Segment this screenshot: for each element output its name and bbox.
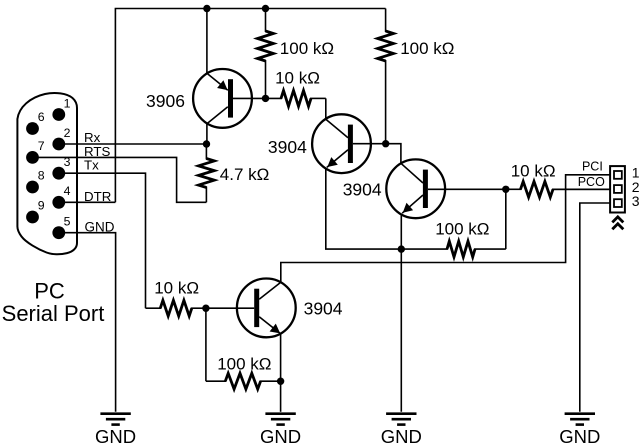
svg-text:PCI: PCI [582, 159, 603, 173]
wire PCO to header pin 2 (crosses PCI wire) [553, 188, 610, 190]
connector J1 3-pin header [610, 166, 625, 212]
resistor R 100k bottom [206, 308, 281, 389]
label PCO [578, 175, 605, 189]
svg-text:8: 8 [38, 169, 45, 183]
transistor Q3 2N3904 [343, 159, 506, 218]
node rail-100k junction [262, 5, 269, 12]
ground G4 (header) [559, 414, 600, 446]
wire Tx from pin 3 [59, 158, 146, 309]
resistor R 100k left [258, 9, 334, 99]
resistor R 10k top [266, 68, 326, 106]
svg-text:GND: GND [559, 426, 600, 446]
wire Q3 base [386, 144, 401, 164]
resistor R 100k right [378, 9, 455, 144]
DB9 pin 8 [26, 169, 45, 194]
wire header pin 3 to ground [580, 203, 610, 412]
ground G2 [260, 414, 301, 446]
svg-text:GND: GND [85, 219, 115, 234]
svg-text:10 kΩ: 10 kΩ [154, 278, 199, 297]
svg-text:GND: GND [381, 426, 422, 446]
node Q2-collector / Q3-base junction [382, 140, 389, 147]
svg-text:Tx: Tx [84, 158, 99, 173]
svg-text:3904: 3904 [343, 180, 382, 200]
wire 3906 emitter stub [206, 9, 208, 74]
resistor R 10k bottom (Tx) [146, 278, 206, 316]
transistor Q2 2N3904 [268, 114, 386, 173]
resistor 4.7 k&#937; [199, 144, 270, 202]
svg-text:3: 3 [632, 193, 640, 209]
transistor Q4 2N3904 [206, 279, 343, 338]
DB9 pin 6 [26, 110, 45, 135]
svg-text:GND: GND [260, 426, 301, 446]
svg-text:9: 9 [38, 199, 45, 213]
DB9 serial-port connector shell [17, 93, 77, 254]
label PCI [582, 159, 603, 173]
svg-text:100 kΩ: 100 kΩ [217, 355, 271, 374]
svg-text:4.7 kΩ: 4.7 kΩ [220, 165, 270, 184]
wire Q2 emitter [326, 168, 402, 249]
svg-text:100 kΩ: 100 kΩ [280, 39, 334, 58]
resistor R 100k feedback [401, 189, 506, 257]
DB9 pin 1 [52, 96, 70, 121]
svg-text:2: 2 [64, 126, 71, 140]
wire DTR from pin 4 [59, 189, 116, 204]
header pin numbers [632, 165, 640, 210]
node Q4 emitter junction [277, 378, 284, 385]
node Q3 collector junction [502, 186, 509, 193]
node rail-emitter junction [203, 5, 210, 12]
svg-text:3906: 3906 [146, 91, 185, 111]
DB9 pin 9 [26, 199, 45, 224]
wire GND from pin 5 [59, 219, 116, 411]
svg-text:10 kΩ: 10 kΩ [275, 68, 320, 87]
ground G3 [381, 414, 422, 446]
svg-text:Rx: Rx [84, 130, 101, 145]
node emitter junction [398, 245, 405, 252]
svg-text:4: 4 [64, 184, 71, 198]
PC Serial Port label [2, 279, 105, 326]
svg-text:7: 7 [38, 139, 45, 153]
wire Q3 emitter to ground rail [400, 214, 402, 412]
svg-text:6: 6 [38, 110, 45, 124]
DB9 pin 5 [52, 215, 70, 240]
svg-text:10 kΩ: 10 kΩ [511, 161, 556, 180]
wire RTS from pin 7 [33, 144, 207, 202]
DB9 pin 3 [52, 155, 70, 180]
ground G1 (serial) [95, 414, 136, 446]
svg-text:5: 5 [64, 215, 71, 229]
svg-text:DTR: DTR [84, 189, 111, 204]
wire V+ rail (DTR supply) [115, 9, 385, 203]
wire Q4 emitter to ground [280, 333, 282, 412]
DB9 pin 7 [26, 139, 45, 164]
DB9 pin 4 [52, 184, 70, 209]
svg-text:3904: 3904 [268, 137, 307, 157]
wire 10k to Q2 base [325, 98, 327, 119]
svg-text:Serial Port: Serial Port [2, 301, 105, 326]
svg-text:GND: GND [95, 426, 136, 446]
node 3906 base junction [262, 95, 269, 102]
svg-text:PCO: PCO [578, 175, 605, 189]
wire Rx from pin 2 [59, 130, 207, 145]
svg-text:100 kΩ: 100 kΩ [400, 39, 454, 58]
svg-text:1: 1 [64, 96, 71, 110]
wire 3906 collector stub [206, 124, 208, 144]
svg-text:100 kΩ: 100 kΩ [435, 220, 489, 239]
node Q4 base junction [202, 305, 209, 312]
node Rx-collector-4.7k junction [203, 140, 210, 147]
resistor R 10k output [506, 161, 610, 197]
polarity chevron marks [612, 217, 623, 229]
transistor Q1 2N3906 [146, 69, 266, 128]
svg-text:3904: 3904 [304, 299, 343, 319]
DB9 pin 2 [52, 126, 70, 151]
wire Q4 collector to PCI [281, 175, 610, 282]
